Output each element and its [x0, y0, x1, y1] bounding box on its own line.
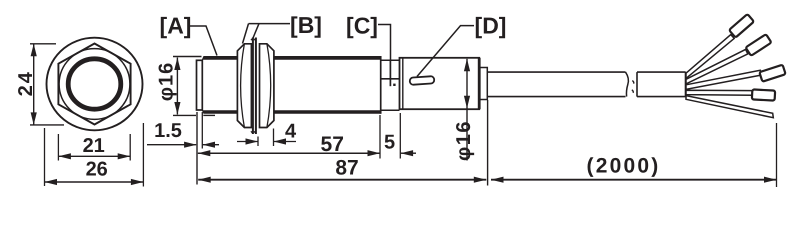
svg-text:24: 24 [15, 70, 37, 96]
dim 21 arrow left [58, 153, 71, 159]
dim 4 ext left [257, 137, 259, 147]
leader D [417, 26, 474, 77]
left nut [237, 44, 251, 128]
leader B line1 [243, 24, 249, 44]
svg-text:[B]: [B] [290, 12, 322, 38]
barrel end line [380, 56, 382, 114]
right nut [260, 44, 274, 128]
dim 26 arrow left [45, 179, 58, 185]
dim 1.5 left-pointing arrow right of gap [203, 144, 220, 146]
dim 1.5 line with right arrow [147, 144, 196, 146]
wire 4 [686, 90, 753, 95]
cable bushing [480, 68, 488, 100]
dim 5 ext left [379, 115, 381, 159]
clamp ring section top edge [381, 59, 400, 61]
wire 3 [686, 70, 761, 89]
leader A [190, 26, 217, 56]
dim 26 arrow right [131, 179, 144, 185]
svg-text:26: 26 [86, 159, 108, 181]
ring division line (C target) [389, 60, 391, 87]
cap right edge thick [478, 58, 481, 109]
clamp ring section bottom edge [381, 109, 400, 111]
dim 4 left line + arrow [237, 141, 258, 143]
svg-text:4: 4 [285, 121, 297, 143]
dim phi16 right line [466, 59, 468, 161]
dim 24 extension line bottom [30, 124, 64, 126]
dim 57 line [198, 152, 380, 154]
rear housing cap [400, 58, 480, 109]
dim 4 right line + arrow [274, 141, 297, 143]
leader C [378, 25, 391, 60]
cap inner left line [402, 58, 404, 109]
wire 1 [686, 35, 734, 79]
cable segment [487, 72, 625, 97]
dim 24 arrow up [31, 44, 37, 57]
leader B line2 [253, 24, 259, 38]
sensing face cap (1.5) [197, 60, 203, 110]
dim 2000 arrows [491, 177, 504, 183]
leader B horizontal [249, 23, 291, 25]
svg-text:5: 5 [384, 131, 395, 153]
ring section horizontal line [381, 78, 400, 80]
svg-text:[D]: [D] [475, 13, 507, 39]
barrel top thick band [202, 56, 381, 60]
terminal 3 [759, 65, 785, 82]
dim 26 extension line right [142, 123, 144, 187]
dim 5 ext right [399, 113, 401, 159]
dim 1.5 ext of face line [201, 112, 203, 149]
terminal 1 [729, 14, 754, 38]
dim 24 extension line top [30, 43, 56, 45]
set screw dot [393, 84, 395, 86]
svg-text:57: 57 [321, 133, 344, 156]
dim 21 extension line right [129, 134, 131, 161]
outer washer circle [47, 38, 143, 131]
left nut facet line [241, 44, 245, 128]
terminal 2 [746, 34, 772, 56]
washer teeth bottom [251, 131, 256, 133]
svg-text:[A]: [A] [160, 13, 192, 39]
dim 24 arrow down [31, 112, 37, 125]
dim 57 arrows [198, 150, 211, 156]
svg-text:21: 21 [83, 135, 105, 157]
nut white mask over bands [237, 50, 274, 135]
svg-text:φ16: φ16 [453, 120, 475, 161]
svg-text:(2000): (2000) [587, 154, 661, 177]
svg-text:φ16: φ16 [156, 62, 178, 102]
dim 87 arrows [198, 177, 211, 183]
dim 87 line [198, 179, 486, 181]
hexagon nut (pointy top/bottom) [58, 44, 130, 125]
svg-text:87: 87 [335, 157, 358, 180]
svg-text:[C]: [C] [346, 13, 378, 39]
dim 21 arrow right [118, 153, 131, 159]
svg-text:1.5: 1.5 [154, 120, 182, 142]
dim phi16 left line [173, 56, 202, 58]
washer teeth top [251, 38, 256, 40]
dim 26 line [45, 181, 144, 183]
dim phi16 right arrows [464, 59, 470, 72]
barrel bottom thick band [202, 110, 381, 114]
barrel left ext line down [196, 112, 198, 185]
wire 5 [686, 96, 773, 118]
break tick marks [632, 81, 634, 93]
dim 5 right stub + arrow [401, 152, 416, 154]
dim phi16 left arrows [174, 58, 180, 71]
dim 21 extension line left [57, 134, 59, 161]
dim 21 line [58, 155, 130, 157]
indicator slot D [410, 76, 435, 85]
chamfer circle inscribed in hexagon [59, 49, 130, 120]
sensor barrel thick ring [68, 59, 121, 109]
dim 2000 ext right [776, 123, 778, 187]
dim 24 line [33, 44, 35, 125]
right nut facet line [267, 44, 271, 128]
cable break right end [626, 72, 629, 97]
dim 4 ext right [273, 129, 275, 147]
dim 87 ext right [487, 100, 489, 186]
cable sheath end piece [637, 72, 686, 97]
dim 2000 line [491, 179, 777, 181]
wire 2 [686, 49, 748, 84]
terminal 4 [752, 89, 775, 100]
dim 26 extension line left [44, 128, 46, 186]
toothed washer [253, 38, 256, 135]
